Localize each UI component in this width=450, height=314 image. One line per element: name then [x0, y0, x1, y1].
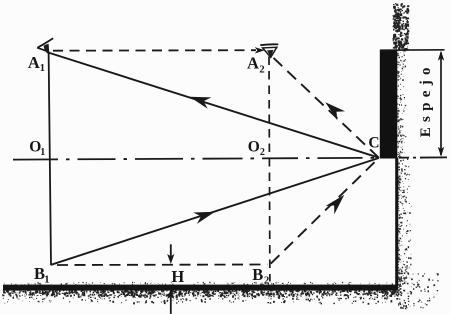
dashed construction line B1-B2: [57, 264, 267, 267]
mirror height dimension line: [440, 53, 442, 156]
object line A1-B1 (vertical): [49, 52, 51, 266]
H dimension arrow down: [167, 244, 174, 264]
virtual ray C to A2 (dashed): [272, 57, 379, 158]
eye symbol at A1: [37, 38, 53, 52]
H dimension arrow up: [167, 289, 174, 314]
svg-text:A: A: [247, 54, 259, 73]
dimension arrow up: [438, 51, 444, 61]
svg-text:Espejo: Espejo: [418, 62, 434, 137]
reflected ray C to A1 (solid): [47, 52, 379, 158]
mirror (thick black bar): [380, 50, 398, 159]
svg-text:2: 2: [260, 147, 265, 158]
ground hatch texture: [2, 290, 400, 304]
svg-text:1: 1: [40, 63, 45, 74]
dashed construction line A1-A2: [53, 49, 256, 52]
svg-text:O: O: [248, 139, 260, 156]
svg-text:1: 1: [44, 275, 49, 286]
arrowhead on ray B1-C: [193, 212, 215, 224]
wall edge below mirror: [395, 158, 398, 287]
wall hatch bottom corner: [398, 272, 439, 309]
arrowhead toward A2: [255, 47, 265, 53]
svg-text:2: 2: [264, 276, 269, 287]
ground bar: [3, 285, 398, 291]
dimension tick at mirror top: [380, 49, 445, 51]
axis extension right of mirror: [399, 156, 448, 158]
wall hatch above mirror: [393, 3, 410, 52]
virtual ray B2 to C (dashed): [271, 158, 379, 264]
arrowhead on ray C-A1: [190, 97, 212, 109]
arrowhead on ray B2-C: [326, 195, 345, 214]
svg-text:1: 1: [40, 147, 45, 158]
wall hatch right of mirror: [397, 51, 406, 158]
eye symbol at A2: [260, 44, 278, 57]
svg-text:B: B: [252, 265, 263, 284]
wall hatch below axis: [398, 159, 411, 287]
axis O1-O2-C (dash-dot optical axis): [13, 158, 379, 160]
svg-text:2: 2: [259, 65, 264, 76]
dashed image line A2-B2 (vertical): [268, 57, 271, 282]
svg-text:H: H: [171, 267, 184, 286]
svg-text:C: C: [368, 135, 379, 152]
dimension arrow down: [438, 147, 444, 157]
svg-text:A: A: [28, 53, 40, 72]
incident ray B1 to C (solid): [51, 158, 379, 265]
arrowhead on ray C-A2: [325, 102, 345, 120]
